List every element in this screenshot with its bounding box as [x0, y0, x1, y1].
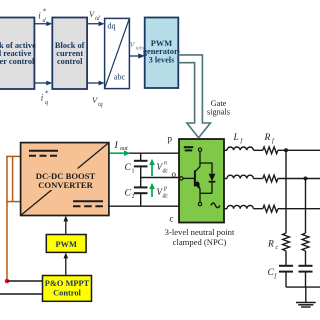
svg-text:PWM: PWM	[55, 240, 76, 249]
icon: NPC bottom terminal circle	[198, 202, 201, 205]
node label V_id	[89, 10, 101, 22]
wire: DC link o rail	[141, 177, 178, 179]
icon: DC bars inside NPC	[184, 147, 194, 150]
caption: 3-level neutral point clamped (NPC)	[165, 227, 235, 247]
svg-text:3-level neutral point: 3-level neutral point	[165, 227, 235, 237]
resistor R_c branch 1	[283, 233, 290, 251]
block: 3-level NPC inverter	[179, 139, 224, 223]
resistor R_c branch 2	[302, 233, 309, 251]
svg-text:dc: dc	[163, 169, 169, 175]
svg-text:I: I	[114, 140, 119, 151]
capacitor C_f branch 2	[299, 266, 313, 287]
label R_c	[267, 240, 279, 252]
svg-text:p: p	[168, 134, 173, 144]
svg-text:p: p	[163, 186, 167, 192]
svg-text:c: c	[276, 245, 279, 251]
label C2	[125, 189, 135, 201]
svg-text:P&O MPPT: P&O MPPT	[45, 279, 90, 288]
node label Gate signals	[207, 99, 230, 117]
svg-text:out: out	[120, 146, 128, 152]
block: current control	[52, 18, 87, 90]
label Vdc_n	[157, 161, 169, 175]
svg-text:n: n	[164, 161, 167, 167]
svg-text:c: c	[170, 214, 174, 224]
svg-text:*: *	[43, 8, 47, 16]
wire: shunt branch 2 vertical	[305, 179, 307, 234]
block: dq/abc transform	[105, 18, 130, 88]
svg-text:1: 1	[132, 169, 135, 175]
block: PWM (yellow)	[46, 235, 86, 253]
node: red junction dot	[5, 279, 10, 284]
svg-text:power control: power control	[0, 57, 35, 66]
node: junction dot phase B	[304, 177, 308, 181]
icon: NPC o-terminal circle	[180, 177, 183, 180]
label Vdc_p	[157, 186, 169, 200]
wire: DC link p rail	[109, 152, 179, 154]
wire: arrow MPPT to PWM	[64, 252, 69, 275]
svg-text:control: control	[57, 57, 83, 66]
svg-text:L: L	[233, 133, 239, 143]
svg-text:dc: dc	[163, 194, 169, 200]
node label i_q*	[41, 90, 49, 107]
wire: arrow Viabc from dq/abc to PWM generator	[129, 53, 144, 58]
wire: NPC internal bottom lead	[199, 193, 201, 202]
wire: NPC internal collector line	[200, 151, 212, 174]
label L_f	[233, 133, 244, 145]
svg-text:o: o	[172, 169, 177, 179]
node label I_out	[114, 140, 129, 152]
label C_f	[268, 268, 278, 280]
capacitor C2	[134, 187, 148, 206]
wire: arrow id* from power control to current control	[34, 21, 52, 26]
block: PWM generator 3 levels	[143, 18, 181, 89]
svg-text:abc: abc	[114, 73, 126, 82]
svg-text:C: C	[125, 189, 132, 199]
wire: branch 1 to capacitor	[285, 251, 287, 265]
svg-text:signals: signals	[207, 108, 230, 117]
wire: hollow gate-signal arrow from PWM generator down to NPC	[179, 55, 211, 138]
svg-text:3 levels: 3 levels	[149, 56, 176, 65]
wire: shunt branch 1 vertical	[285, 150, 287, 233]
svg-text:CONVERTER: CONVERTER	[38, 180, 93, 190]
wire: phase C line with inductor and resistor	[224, 205, 320, 212]
wire: green Iout arrow	[110, 150, 131, 156]
svg-text:Control: Control	[53, 289, 81, 298]
transistor Q inside NPC	[182, 163, 201, 193]
svg-text:2: 2	[132, 194, 135, 200]
label R_f	[264, 133, 276, 145]
diode D inside NPC	[200, 174, 215, 194]
ground	[296, 287, 316, 307]
wire: arrow PWM to converter	[64, 216, 69, 235]
wire: arrow Vid from current control to dq/abc	[87, 21, 105, 26]
node: green arrow Vdc_n	[149, 159, 155, 176]
icon: NPC top terminal circle	[198, 148, 201, 151]
node label V_iabc	[130, 40, 146, 52]
node label V_iq	[92, 96, 103, 108]
wire: neutral join line	[286, 286, 320, 288]
label C1	[125, 163, 135, 175]
svg-text:C: C	[125, 163, 132, 173]
node: junction dot phase A	[284, 148, 288, 152]
wire: arrow Viq from current control to dq/abc	[87, 81, 105, 86]
node: green arrow Vdc_p	[149, 183, 155, 197]
svg-text:C: C	[268, 268, 275, 278]
svg-text:R: R	[264, 133, 271, 143]
wire: PV positive rail (orange) into boost converter	[6, 156, 20, 281]
wire: phase A line with inductor and resistor	[224, 147, 320, 154]
svg-text:iq: iq	[98, 102, 103, 108]
wire: branch 2 to capacitor	[305, 251, 307, 265]
wire: phase B line with inductor and resistor	[224, 175, 320, 182]
node label i_d*	[38, 8, 47, 25]
wire: arrow iq* from power control to current control	[34, 81, 52, 86]
icon: emitter arrowhead	[194, 181, 200, 189]
svg-text:R: R	[267, 240, 274, 250]
block: DC-DC boost converter	[21, 143, 109, 216]
svg-text:*: *	[45, 90, 49, 98]
capacitor C1	[134, 153, 148, 186]
svg-text:q: q	[45, 99, 48, 106]
svg-text:dq: dq	[107, 22, 115, 31]
block: active and reactive power control (cropped at left edge)	[0, 18, 36, 90]
capacitor C_f branch 1	[279, 266, 293, 287]
wire: DC link c rail	[109, 205, 179, 207]
svg-text:clamped (NPC): clamped (NPC)	[173, 237, 227, 247]
wire: current sense to MPPT	[0, 293, 43, 295]
icon: AC sine inside NPC	[211, 203, 220, 208]
block: P&O MPPT control (yellow)	[43, 276, 92, 302]
wire: voltage sense to MPPT	[7, 280, 43, 282]
